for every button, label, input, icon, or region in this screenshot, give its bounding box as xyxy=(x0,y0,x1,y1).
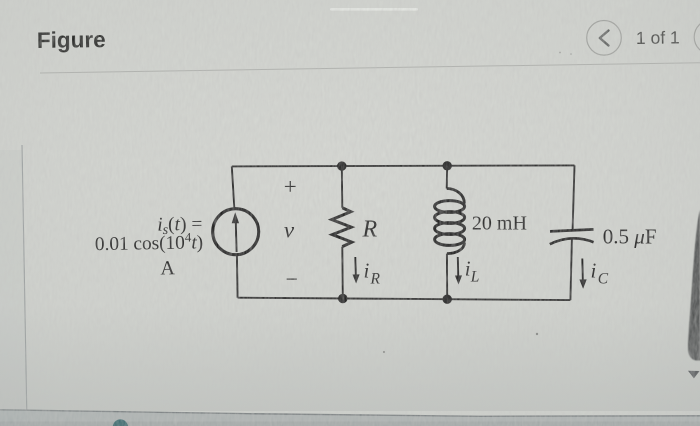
current source arrow xyxy=(232,212,239,252)
scrollbar down arrow xyxy=(688,371,700,379)
header separator line xyxy=(40,63,700,73)
svg-text:C: C xyxy=(598,270,609,287)
svg-text:−: − xyxy=(286,267,298,292)
current arrow iC xyxy=(579,259,586,289)
nav prev chevron button xyxy=(587,21,622,56)
current arrow iL xyxy=(455,257,462,285)
current arrow iR xyxy=(353,257,360,284)
svg-text:v: v xyxy=(284,217,295,242)
svg-text:A: A xyxy=(160,257,175,279)
bottom page vignette xyxy=(0,305,700,411)
svg-text:20 mH: 20 mH xyxy=(472,213,527,235)
wire: bottom xyxy=(238,298,571,300)
area below page bottom edge xyxy=(0,410,700,426)
svg-text:L: L xyxy=(470,268,480,285)
svg-text:0.5 μF: 0.5 μF xyxy=(603,224,657,248)
node: top-left (resistor top) xyxy=(337,161,346,170)
top edge reflection highlight xyxy=(330,8,418,11)
node: top-right (inductor top) xyxy=(443,161,452,170)
current source IS circle xyxy=(213,209,259,255)
node: bottom-left (resistor bottom) xyxy=(338,294,347,303)
wire: left lower (source to bottom corner) xyxy=(236,255,239,298)
capacitor C plates xyxy=(550,229,594,244)
page left edge line xyxy=(22,145,27,412)
svg-text:i: i xyxy=(591,259,597,283)
nav next button (clipped at right edge) xyxy=(694,20,700,55)
inductor L coil xyxy=(435,166,465,299)
scrollbar dark thumb xyxy=(688,210,700,361)
node: bottom-right (inductor bottom) xyxy=(443,295,452,304)
page bottom edge line xyxy=(0,410,700,417)
dust specks xyxy=(559,52,561,54)
wire: left upper (top corner to source) xyxy=(232,166,235,209)
wire: top xyxy=(232,165,575,166)
svg-text:1 of 1: 1 of 1 xyxy=(636,27,680,48)
wire: right upper (top corner to capacitor) xyxy=(573,165,575,229)
resistor R zigzag xyxy=(332,166,352,298)
svg-text:R: R xyxy=(370,270,381,287)
svg-text:+: + xyxy=(284,174,297,199)
wire: right lower (capacitor to bottom corner) xyxy=(570,239,572,301)
svg-text:R: R xyxy=(362,216,378,242)
svg-text:0.01 cos(104t): 0.01 cos(104t) xyxy=(95,229,204,255)
svg-text:Figure: Figure xyxy=(37,27,106,53)
teal dot at bottom xyxy=(113,419,128,426)
svg-text:i: i xyxy=(364,259,370,283)
